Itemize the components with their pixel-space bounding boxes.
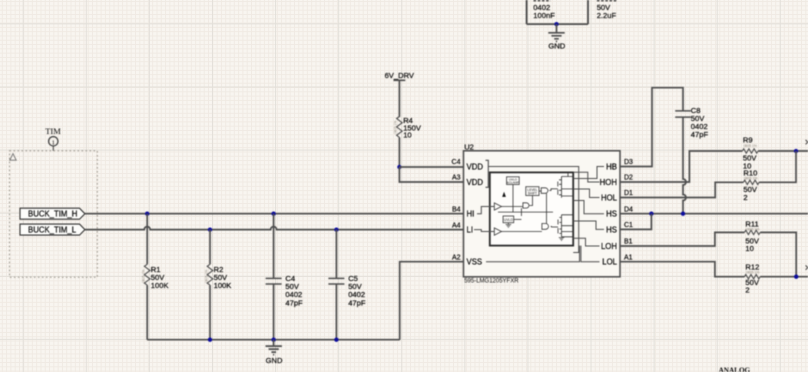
VSS inner rail bbox=[486, 246, 580, 262]
inner AND gate mid bbox=[523, 203, 529, 208]
capacitor top-right (cut off), value 2.2uF bbox=[588, 0, 617, 24]
svg-text:D2: D2 bbox=[624, 175, 633, 182]
wire HOL to R10 bbox=[620, 182, 743, 197]
pin name HOL bbox=[601, 193, 618, 202]
svg-text:BUCK_TIM_L: BUCK_TIM_L bbox=[28, 226, 77, 235]
net label flag BUCK_TIM_L bbox=[20, 224, 85, 235]
wire joining top capacitors bbox=[527, 23, 588, 25]
resistor R4 10 bbox=[394, 116, 422, 167]
svg-text:10: 10 bbox=[403, 131, 411, 140]
wire BUCK_TIM_H to pin B4 bbox=[85, 213, 464, 215]
svg-text:595-LMG1205YFXR: 595-LMG1205YFXR bbox=[464, 279, 519, 285]
svg-text:1: 1 bbox=[52, 139, 55, 146]
off-sheet mark top right bbox=[806, 140, 808, 144]
wire LOH to R11 bbox=[620, 232, 745, 246]
svg-text:SHIFT: SHIFT bbox=[528, 191, 537, 195]
svg-text:HI: HI bbox=[467, 210, 475, 219]
wire R10 up to R9 junction bbox=[759, 151, 796, 182]
junction H wire at C4 bbox=[271, 212, 275, 216]
internal VDD rail from bracket over block bbox=[488, 167, 578, 253]
svg-text:2: 2 bbox=[743, 193, 747, 202]
pin name HS (C1) bbox=[606, 225, 617, 234]
svg-text:BUCK_TIM_H: BUCK_TIM_H bbox=[28, 210, 77, 219]
inner box LEVEL SHIFT bbox=[526, 187, 539, 196]
wire ground rail bbox=[147, 339, 400, 341]
svg-text:VSS: VSS bbox=[467, 258, 483, 267]
capacitor C5 47pF bbox=[328, 230, 365, 340]
inner wires bbox=[498, 185, 553, 232]
svg-text:47pF: 47pF bbox=[285, 298, 303, 307]
IC U2 LMG1205 body bbox=[464, 143, 621, 285]
capacitor C8 47pF bbox=[675, 106, 708, 139]
svg-text:0805 1%: 0805 1% bbox=[744, 144, 757, 148]
capacitor C4 47pF bbox=[266, 214, 303, 340]
junction rail at R2 bbox=[208, 338, 212, 342]
right-side inner stub HS (D4) bbox=[573, 201, 604, 214]
svg-text:&CLAMP: &CLAMP bbox=[507, 181, 519, 185]
svg-text:A1: A1 bbox=[624, 254, 633, 261]
svg-text:C1: C1 bbox=[624, 222, 633, 229]
svg-text:2: 2 bbox=[745, 286, 749, 295]
right-side inner stub HOH bbox=[573, 172, 599, 182]
junction rail at C5 bbox=[334, 338, 338, 342]
right-side inner stub LOL bbox=[581, 246, 600, 262]
inner functional block bbox=[490, 172, 573, 245]
pin designator A2 bbox=[452, 254, 461, 261]
resistor R11 10 bbox=[745, 220, 761, 254]
svg-text:HB: HB bbox=[606, 162, 617, 171]
svg-text:VDD: VDD bbox=[467, 178, 484, 187]
capacitor top-left (cut off), value 100nF bbox=[527, 0, 556, 24]
svg-text:TIM: TIM bbox=[45, 126, 61, 136]
inner box UVLO &amp; CLAMP bbox=[507, 177, 520, 185]
right-side inner stub HS (C1) bbox=[573, 221, 604, 229]
pin designator A1 bbox=[624, 254, 633, 261]
svg-text:UVLO: UVLO bbox=[504, 218, 513, 222]
power port 6V_DRV bbox=[385, 71, 415, 117]
svg-text:B1: B1 bbox=[624, 239, 633, 246]
svg-text:HS: HS bbox=[606, 225, 617, 234]
wire HOH to R9 bbox=[620, 151, 742, 182]
wire C8 bottom to HS (hops over D2 and D1 wires) bbox=[683, 117, 686, 214]
inner AND gate bottom bbox=[542, 224, 549, 230]
svg-text:B4: B4 bbox=[452, 206, 461, 213]
inner MOSFET pair top bbox=[553, 172, 573, 197]
wire R9 to output bbox=[758, 150, 808, 152]
svg-text:0805 1%: 0805 1% bbox=[746, 227, 759, 231]
svg-text:A3: A3 bbox=[452, 175, 461, 182]
svg-text:100K: 100K bbox=[151, 281, 169, 290]
VDD tie bracket bbox=[486, 160, 489, 187]
inner MOSFET pair bottom bbox=[553, 215, 573, 237]
svg-text:0805 1%: 0805 1% bbox=[204, 270, 208, 283]
off-sheet mark bottom right bbox=[806, 265, 808, 269]
svg-text:2.2uF: 2.2uF bbox=[597, 11, 617, 20]
svg-text:GND: GND bbox=[266, 356, 283, 365]
resistor R10 2 bbox=[743, 169, 759, 202]
junction L wire at C5 bbox=[334, 227, 338, 231]
ground GND (bottom) bbox=[266, 340, 283, 365]
svg-text:U2: U2 bbox=[464, 143, 474, 152]
svg-text:D4: D4 bbox=[624, 206, 633, 213]
wire R12 to output bbox=[760, 276, 808, 278]
wire HS long bbox=[620, 213, 808, 215]
pin name HS (D4) bbox=[606, 210, 617, 219]
pin designator B4 bbox=[452, 206, 461, 213]
wire to pin A3 VDD bbox=[399, 167, 463, 182]
pin designator D1 bbox=[624, 190, 633, 197]
svg-text:10: 10 bbox=[745, 244, 753, 253]
pin name HI bbox=[467, 210, 475, 219]
wire to pin C4 VDD bbox=[399, 166, 463, 168]
wire BUCK_TIM_L to pin A4 (hops over R1 and C4 drops) bbox=[85, 227, 464, 230]
junction top caps bbox=[554, 22, 558, 26]
svg-text:47pF: 47pF bbox=[348, 298, 366, 307]
resistor R12 2 bbox=[745, 263, 761, 295]
svg-text:HS: HS bbox=[606, 210, 617, 219]
svg-text:A4: A4 bbox=[452, 222, 461, 229]
port TIM with sheet-entry circle 1 bbox=[45, 126, 61, 151]
svg-text:0805 1%: 0805 1% bbox=[142, 270, 146, 283]
svg-text:VDD: VDD bbox=[467, 162, 484, 171]
inner arrow marker bbox=[502, 192, 506, 197]
pin designator A3 bbox=[452, 175, 461, 182]
pin designator C4 bbox=[452, 159, 461, 166]
wire R11 down to output junction bbox=[760, 232, 796, 276]
right-side inner stub LOH bbox=[573, 238, 599, 246]
svg-text:GND: GND bbox=[548, 42, 565, 51]
svg-text:0805 1%: 0805 1% bbox=[394, 121, 398, 134]
svg-text:6V_DRV: 6V_DRV bbox=[385, 71, 415, 80]
svg-text:LOL: LOL bbox=[602, 258, 617, 267]
resistor R2 100K bbox=[204, 230, 231, 340]
svg-text:0805 1%: 0805 1% bbox=[746, 271, 759, 275]
svg-text:0805 1%: 0805 1% bbox=[744, 176, 757, 180]
svg-text:A2: A2 bbox=[452, 254, 461, 261]
net label flag BUCK_TIM_H bbox=[20, 208, 85, 219]
inner buffer LI bbox=[494, 228, 501, 235]
right-side inner stub HB bbox=[573, 167, 604, 179]
wire LOL to R12 bbox=[620, 262, 745, 277]
pin name LOH bbox=[601, 242, 617, 251]
right-side inner stub HOL bbox=[573, 189, 599, 198]
pin name VDD (A3) bbox=[467, 178, 484, 187]
resistor R9 10 bbox=[742, 136, 758, 171]
svg-text:D3: D3 bbox=[624, 159, 633, 166]
junction H wire at R1 bbox=[145, 212, 149, 216]
pin name HB bbox=[606, 162, 617, 171]
svg-text:47pF: 47pF bbox=[691, 130, 709, 139]
svg-text:HOH: HOH bbox=[600, 178, 617, 187]
LI pin stub into buffer bbox=[474, 230, 494, 232]
text ANALOG (cut off at bottom) bbox=[719, 366, 751, 372]
svg-text:HOL: HOL bbox=[601, 193, 618, 202]
pin name HOH bbox=[600, 178, 617, 187]
junction HS at C8 leg bbox=[681, 212, 685, 216]
svg-text:C4: C4 bbox=[452, 159, 461, 166]
HI pin stub into buffer bbox=[477, 207, 494, 214]
pin designator D2 bbox=[624, 175, 633, 182]
inner buffer HI bbox=[494, 203, 501, 210]
junction R9/R10 output bbox=[794, 149, 798, 153]
pin designator B1 bbox=[624, 239, 633, 246]
pin name LOL bbox=[602, 258, 617, 267]
wire C1 to HS bbox=[620, 214, 651, 230]
junction rail at C4 bbox=[271, 338, 275, 342]
svg-text:100K: 100K bbox=[214, 281, 232, 290]
svg-text:ANALOG: ANALOG bbox=[719, 366, 751, 372]
inner AND gate top bbox=[541, 188, 548, 194]
wire D3 up to C8 bbox=[620, 88, 683, 167]
svg-text:LI: LI bbox=[467, 226, 474, 235]
ground GND (top) bbox=[548, 24, 565, 50]
dashed harness box bbox=[10, 151, 98, 277]
resistor R1 100K bbox=[142, 214, 169, 340]
pin designator C1 bbox=[624, 222, 633, 229]
svg-text:100nF: 100nF bbox=[533, 11, 555, 20]
junction HS at C1 riser bbox=[649, 212, 653, 216]
wire VSS riser to pin A2 bbox=[400, 262, 464, 340]
inner box UVLO bbox=[503, 216, 514, 227]
junction VDD split bbox=[397, 165, 401, 169]
pin name VSS bbox=[467, 258, 483, 267]
svg-text:LOH: LOH bbox=[601, 242, 617, 251]
inner ground bottom-right bbox=[559, 238, 564, 241]
pin name VDD (C4) bbox=[467, 162, 484, 171]
svg-text:D1: D1 bbox=[624, 190, 633, 197]
junction R11/R12 output bbox=[794, 275, 798, 279]
junction L wire at R2 bbox=[208, 227, 212, 231]
pin designator A4 bbox=[452, 222, 461, 229]
pin designator D4 bbox=[624, 206, 633, 213]
pin designator D3 bbox=[624, 159, 633, 166]
pin name LI bbox=[467, 226, 474, 235]
